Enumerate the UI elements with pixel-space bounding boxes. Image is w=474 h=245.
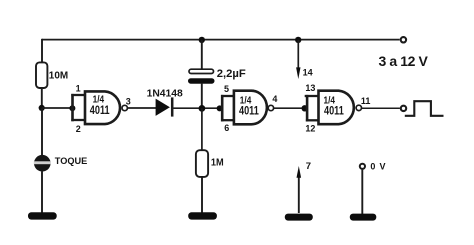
wire rail to pin 14 arrow: [297, 40, 299, 68]
NAND gate U1c body: [319, 91, 354, 125]
svg-text:4011: 4011: [324, 103, 344, 117]
wire diode D1 to node B: [173, 107, 219, 109]
wire resistor R2 to ground: [201, 177, 203, 213]
resistor R1 10M: [36, 62, 47, 88]
touch sensor TOQUE: [34, 155, 51, 172]
ground bar 3: [285, 214, 313, 221]
wire node B to resistor R2: [201, 108, 203, 150]
wire left supply drop: [41, 39, 43, 63]
pin 1 stub: [71, 94, 86, 96]
wire resistor R1 to node A: [41, 88, 43, 108]
wire top power rail: [42, 39, 400, 41]
junction dot on rail for pin 14: [295, 37, 301, 43]
node B junction dot: [199, 105, 206, 112]
capacitor C1 bottom plate: [188, 78, 215, 84]
svg-text:1N4148: 1N4148: [147, 89, 184, 100]
svg-text:6: 6: [224, 123, 229, 133]
gate U1b input junction dot: [217, 105, 223, 111]
svg-text:5: 5: [224, 84, 229, 94]
ground bar 4: [350, 214, 377, 221]
pin 14 arrowhead: [296, 67, 300, 79]
svg-text:4011: 4011: [90, 103, 110, 117]
wire 0V terminal to ground: [361, 170, 363, 214]
gate U1b output bubble: [268, 105, 273, 110]
svg-text:11: 11: [361, 96, 371, 106]
gate U1c input tie bar: [306, 95, 309, 122]
pin 12 stub: [306, 119, 320, 121]
terminal output (open circle): [401, 106, 406, 111]
resistor R2 1M: [196, 150, 208, 177]
capacitor C1 top plate: [189, 69, 214, 73]
gate U1a output bubble: [122, 105, 127, 110]
svg-text:13: 13: [305, 83, 315, 93]
svg-text:14: 14: [303, 68, 313, 78]
node C junction dot: [302, 105, 308, 111]
gate U1b input tie bar: [221, 95, 224, 122]
terminal supply (open circle): [401, 37, 406, 42]
junction dot on rail for capacitor C1: [199, 37, 205, 43]
NAND gate U1b body: [234, 91, 267, 125]
pin 2 stub: [71, 119, 86, 121]
ground bar 2: [188, 212, 217, 219]
svg-text:10M: 10M: [49, 71, 68, 82]
svg-text:12: 12: [305, 123, 315, 133]
pin 13 stub: [305, 95, 320, 97]
wire gate U1c output to output terminal: [362, 107, 400, 109]
wire rail to capacitor C1: [201, 40, 203, 69]
svg-text:3: 3: [126, 97, 131, 107]
wire capacitor C1 to node B: [201, 84, 203, 109]
pin 7 ground arrow: [297, 166, 302, 213]
wire gate U1a output to diode D1: [128, 107, 156, 109]
square wave output symbol: [405, 101, 444, 116]
wire node A to gate U1a input: [42, 107, 73, 109]
terminal 0V (open circle): [360, 164, 365, 169]
wire gate U1b output to node C: [274, 107, 305, 109]
node A junction dot: [39, 105, 45, 111]
svg-text:7: 7: [306, 161, 311, 172]
ground bar 1: [28, 212, 57, 219]
pin 6 stub: [221, 119, 235, 121]
gate U1a input tie bar: [71, 94, 74, 121]
NAND gate U1a body: [85, 91, 120, 124]
wire touch plate to ground: [41, 172, 43, 214]
svg-text:0 V: 0 V: [370, 161, 386, 171]
wire node A down to touch plate: [41, 108, 43, 155]
svg-text:TOQUE: TOQUE: [55, 156, 88, 167]
svg-text:1M: 1M: [211, 157, 224, 168]
svg-text:4: 4: [272, 94, 277, 104]
svg-text:4011: 4011: [239, 103, 259, 117]
gate U1c output bubble: [356, 105, 361, 110]
gate U1a input junction dot: [69, 105, 75, 111]
svg-text:2,2µF: 2,2µF: [217, 68, 246, 80]
svg-text:2: 2: [76, 124, 81, 134]
svg-text:1: 1: [76, 83, 81, 93]
pin 5 stub: [221, 95, 235, 97]
svg-text:3 a 12 V: 3 a 12 V: [379, 53, 429, 69]
diode D1 1N4148: [156, 97, 173, 116]
